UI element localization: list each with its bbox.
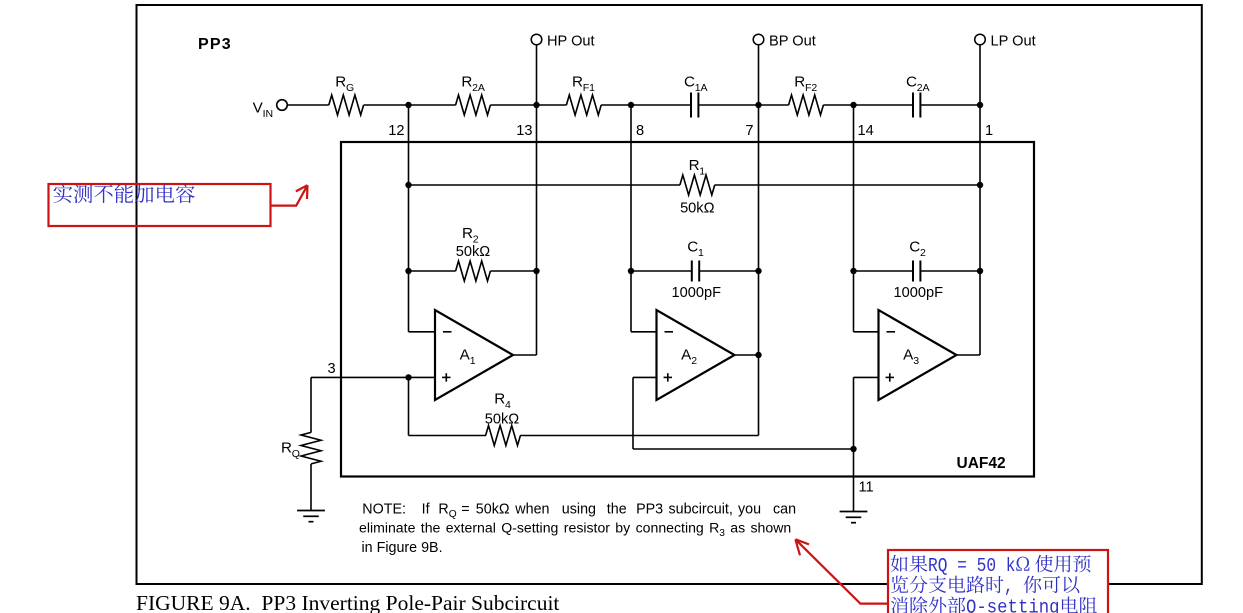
annotation text right line2 (891, 576, 1003, 594)
capacitor C1A (690, 93, 692, 118)
svg-text:2A: 2A (917, 82, 930, 94)
svg-text:UAF42: UAF42 (957, 455, 1006, 472)
svg-text:3: 3 (328, 361, 336, 377)
wire A3 noninverting input (854, 376, 879, 378)
svg-text:IN: IN (263, 108, 274, 120)
wire RG to node 12 (364, 104, 409, 106)
node 12 junction (405, 102, 411, 108)
svg-text:shown: shown (751, 520, 792, 536)
terminal LP Out (975, 34, 986, 45)
wire A2 noninverting input (633, 376, 657, 378)
svg-text:50kΩ: 50kΩ (680, 201, 715, 217)
wire RQ to ground (310, 464, 312, 511)
svg-text:you: you (738, 502, 761, 518)
resistor R4 (486, 426, 521, 446)
svg-text:can: can (773, 502, 796, 518)
svg-text:12: 12 (388, 123, 404, 139)
wire BP Out to main rail (758, 45, 760, 105)
annotation text left (53, 184, 194, 203)
wire pin 3 (311, 376, 435, 378)
wire R2 left (409, 270, 456, 272)
svg-text:1: 1 (699, 166, 705, 178)
node C1 right junction (755, 268, 761, 274)
wire A2 inverting input (631, 331, 657, 333)
svg-text:C: C (906, 74, 917, 91)
svg-text:14: 14 (858, 123, 874, 139)
node 1 junction (977, 102, 983, 108)
svg-text:,: , (1004, 576, 1023, 598)
svg-text:RQ = 50 k: RQ = 50 k (928, 555, 1016, 577)
svg-text:FIGURE 9A. PP3 Inverting Pole: FIGURE 9A. PP3 Inverting Pole-Pair Subci… (136, 591, 559, 613)
op-amp A1 (435, 310, 513, 400)
svg-text:13: 13 (516, 123, 532, 139)
wire node 14 to C2A (854, 104, 913, 106)
resistor R1 (680, 175, 715, 195)
wire pin 11 (853, 449, 855, 512)
svg-text:resistor: resistor (564, 520, 611, 536)
annotation text right line3 (891, 597, 966, 613)
wire R2A to node 13 (490, 104, 536, 106)
node 8 junction (628, 102, 634, 108)
wire R2 right (490, 270, 536, 272)
wire R4 left (409, 435, 487, 437)
svg-text:R: R (709, 520, 719, 536)
svg-text:C: C (687, 239, 698, 256)
svg-text:R: R (438, 502, 448, 518)
wire pin3 to RQ (310, 377, 312, 432)
svg-text:PP3: PP3 (198, 36, 232, 53)
svg-text:F2: F2 (805, 82, 817, 94)
svg-text:R: R (281, 439, 292, 456)
svg-text:when: when (514, 502, 549, 518)
node R2 left junction (405, 268, 411, 274)
svg-text:11: 11 (859, 480, 874, 496)
node 7 junction (755, 102, 761, 108)
svg-text:R: R (689, 157, 700, 174)
svg-text:R: R (462, 225, 473, 242)
annotation arrow left (271, 185, 308, 205)
svg-text:2: 2 (920, 247, 926, 259)
wire A3 plus down (853, 377, 855, 449)
svg-text:7: 7 (745, 123, 753, 139)
terminal VIN (277, 100, 288, 111)
wire C1 right (700, 270, 759, 272)
svg-text:C: C (684, 74, 695, 91)
wire HP Out to main rail (536, 45, 538, 105)
node 14 junction (850, 102, 856, 108)
op-amp A3 (879, 310, 957, 400)
node C1 left junction (628, 268, 634, 274)
wire VIN to RG (287, 104, 328, 106)
wire A3 inverting input (854, 331, 879, 333)
resistor R2 (456, 261, 491, 281)
svg-text:If: If (422, 502, 430, 518)
wire RF2 to node 14 (823, 104, 853, 106)
node A2 output junction (755, 352, 761, 358)
wire node 14 column (853, 105, 855, 332)
wire node 13 to RF1 (537, 104, 567, 106)
node pin3 junction (405, 374, 411, 380)
wire R1 right (715, 184, 980, 186)
svg-text:3: 3 (913, 355, 919, 367)
node pin 11 junction (850, 446, 856, 452)
wire LP Out to main rail (979, 45, 981, 105)
ground RQ (297, 510, 325, 512)
svg-text:4: 4 (505, 399, 511, 411)
svg-text:50kΩ: 50kΩ (485, 412, 520, 428)
svg-text:R: R (461, 74, 472, 91)
annotation arrow right (795, 539, 888, 603)
op-amp A2 (657, 310, 735, 400)
resistor R2A (456, 95, 491, 115)
svg-text:the: the (421, 520, 441, 536)
svg-text:8: 8 (636, 123, 644, 139)
wire node 8 to C1A (631, 104, 691, 106)
wire node 13 column (536, 105, 538, 355)
wire RF1 to node 8 (601, 104, 631, 106)
capacitor C2 (912, 261, 914, 282)
wire node 7 column (758, 105, 760, 436)
wire A1 output (513, 354, 537, 356)
svg-text:subcircuit,: subcircuit, (669, 502, 733, 518)
svg-text:by: by (615, 520, 631, 536)
svg-text:50kΩ: 50kΩ (476, 502, 510, 518)
resistor RF2 (789, 95, 824, 115)
IC boundary UAF42 (341, 142, 1034, 477)
wire C1A to node 7 (699, 104, 759, 106)
wire node 12 column (408, 105, 410, 332)
svg-text:2A: 2A (472, 82, 485, 94)
wire node 12 to R2A (409, 104, 456, 106)
wire ground rail (633, 448, 854, 450)
svg-text:1: 1 (698, 247, 704, 259)
svg-text:using: using (562, 502, 596, 518)
wire node 8 column (630, 105, 632, 332)
svg-text:R: R (494, 391, 505, 408)
terminal HP Out (531, 34, 542, 45)
wire A2 output (735, 354, 759, 356)
svg-text:eliminate: eliminate (359, 520, 416, 536)
node C2 right junction (977, 268, 983, 274)
svg-text:50kΩ: 50kΩ (456, 244, 491, 260)
svg-text:external: external (446, 520, 496, 536)
svg-text:G: G (346, 82, 354, 94)
svg-text:1: 1 (985, 123, 993, 139)
resistor RQ (301, 432, 321, 463)
svg-text:1000pF: 1000pF (894, 285, 944, 301)
svg-text:connecting: connecting (636, 520, 704, 536)
annotation box left (49, 184, 271, 226)
svg-text:Q: Q (449, 509, 457, 520)
svg-text:Q: Q (292, 448, 300, 460)
svg-text:1000pF: 1000pF (672, 285, 722, 301)
svg-text:as: as (730, 520, 745, 536)
wire pin3 to R4 (408, 377, 410, 435)
wire A2 plus down (632, 377, 634, 449)
svg-text:=: = (461, 502, 469, 518)
svg-text:Q-setting: Q-setting (966, 597, 1060, 613)
node C2 left junction (850, 268, 856, 274)
node R1 right junction (977, 182, 983, 188)
resistor RG (329, 95, 364, 115)
wire C2 left (854, 270, 913, 272)
capacitor C1 (691, 261, 693, 282)
ground pin 11 (840, 511, 868, 513)
wire R4 right (520, 435, 759, 437)
wire A1 inverting input (409, 331, 436, 333)
resistor RF1 (566, 95, 601, 115)
svg-text:PP3: PP3 (636, 502, 663, 518)
wire A3 output (957, 354, 981, 356)
node R2 right junction (533, 268, 539, 274)
wire node 7 to RF2 (759, 104, 789, 106)
wire C1 left (631, 270, 691, 272)
wire node 1 column (979, 105, 981, 355)
svg-text:3: 3 (719, 528, 725, 539)
svg-text:2: 2 (691, 355, 697, 367)
svg-text:Q-setting: Q-setting (501, 520, 558, 536)
svg-text:LP Out: LP Out (991, 33, 1036, 49)
node R1 left junction (405, 182, 411, 188)
svg-text:C: C (909, 239, 920, 256)
svg-text:R: R (335, 74, 346, 91)
svg-text:1A: 1A (695, 82, 708, 94)
terminal BP Out (753, 34, 764, 45)
wire R1 left (409, 184, 681, 186)
annotation text right line1 (891, 555, 928, 572)
capacitor C2A (912, 93, 914, 118)
wire C2 right (921, 270, 980, 272)
wire C2A to node 1 (921, 104, 980, 106)
svg-text:HP Out: HP Out (547, 33, 595, 49)
svg-text:NOTE:: NOTE: (362, 502, 406, 518)
annotation box right (888, 550, 1108, 613)
svg-text:R: R (794, 74, 805, 91)
svg-text:1: 1 (470, 355, 476, 367)
svg-text:BP Out: BP Out (769, 33, 816, 49)
svg-text:R: R (572, 74, 583, 91)
node 13 junction (533, 102, 539, 108)
svg-text:in Figure 9B.: in Figure 9B. (362, 540, 443, 556)
svg-text:F1: F1 (583, 82, 595, 94)
svg-text:the: the (607, 502, 627, 518)
